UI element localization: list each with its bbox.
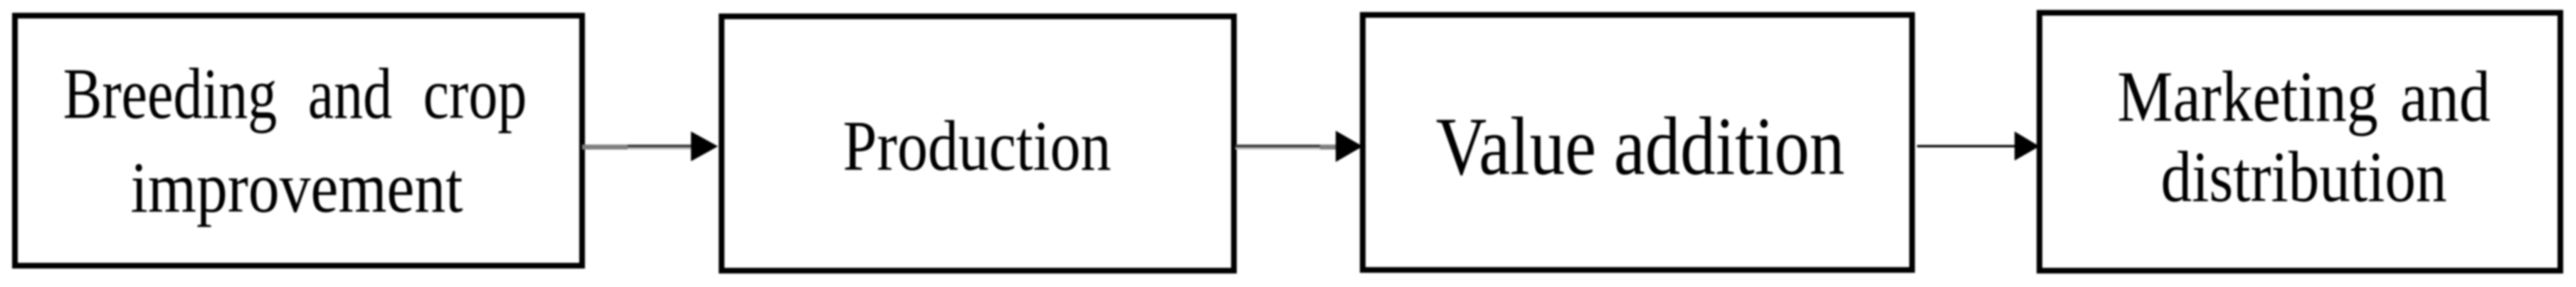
arrowhead 3 (2015, 131, 2039, 161)
box: Production (722, 16, 1234, 271)
box: Value addition (1363, 15, 1912, 270)
arrowhead 2 (1336, 131, 1363, 162)
svg-text:Marketing and: Marketing and (2117, 57, 2491, 136)
svg-text:distribution: distribution (2161, 137, 2447, 217)
svg-text:Production: Production (843, 107, 1112, 186)
svg-text:Value addition: Value addition (1436, 102, 1845, 193)
wire: arrow 2 shaft dark segment (1235, 145, 1320, 148)
wire: arrow 1 shaft gray segment (582, 145, 628, 150)
wire: arrow 3 shaft (1917, 145, 2015, 148)
svg-text:Breeding and crop: Breeding and crop (63, 54, 527, 134)
svg-text:improvement: improvement (131, 148, 463, 227)
arrowhead 1 (691, 131, 718, 161)
wire: arrow 1 shaft light underline (628, 148, 692, 150)
box: Marketing and distribution (2039, 13, 2560, 271)
box: Breeding and crop improvement (15, 16, 582, 266)
wire: arrow 2 shaft light underline (1235, 148, 1320, 150)
wire: arrow 2 shaft gray segment (1320, 145, 1336, 150)
wire: arrow 1 shaft dark segment (628, 145, 692, 148)
